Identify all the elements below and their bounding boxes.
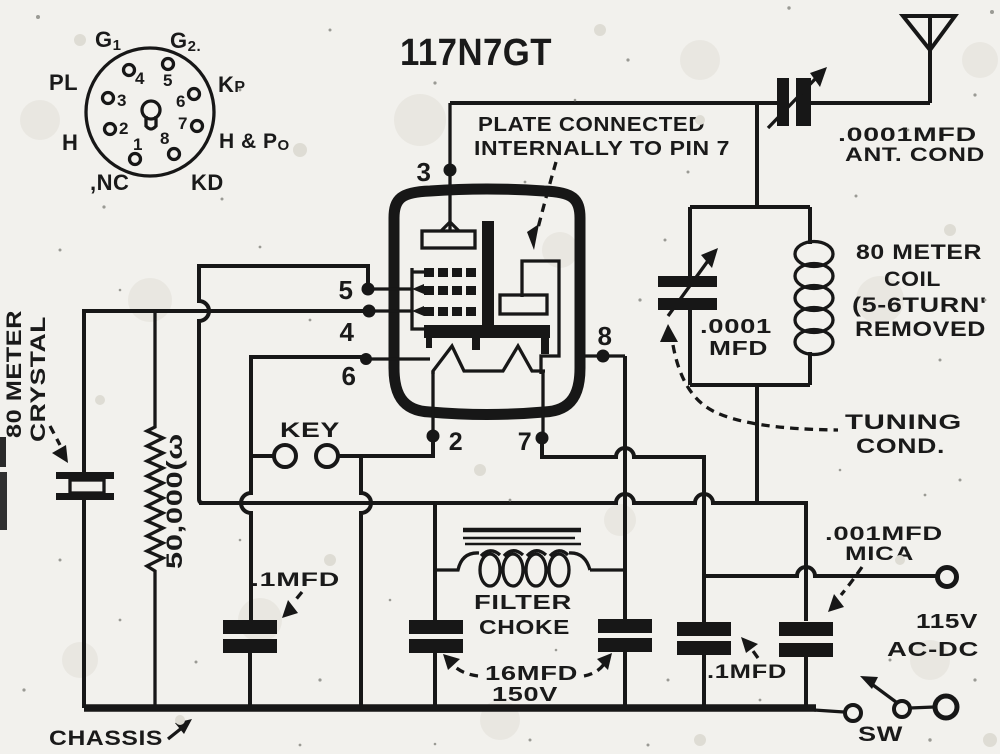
- wire: pin 5 screen feed loop: [199, 266, 368, 503]
- svg-text:3: 3: [117, 91, 127, 110]
- svg-text:5: 5: [163, 71, 173, 90]
- pin 8 stub: [584, 354, 625, 357]
- pin 5 stub into tube: [362, 287, 412, 290]
- socket pin 1: [130, 154, 141, 165]
- svg-text:80 METER: 80 METER: [856, 241, 982, 264]
- variable arrow through tuning capacitor: [668, 258, 710, 316]
- svg-text:ANT. COND: ANT. COND: [845, 145, 985, 166]
- chassis ground bus: [84, 704, 816, 712]
- svg-text:2: 2: [449, 428, 463, 456]
- wire: tank bottom feed to bus: [755, 385, 759, 505]
- wire: pin 8 rectifier output down to choke right: [623, 356, 627, 619]
- svg-text:3: 3: [417, 157, 432, 187]
- tank box top: [690, 205, 810, 209]
- svg-text:PLATE CONNECTED: PLATE CONNECTED: [478, 114, 705, 136]
- svg-text:COIL: COIL: [884, 268, 941, 291]
- capacitor C1 .1MFD cathode bypass: [223, 620, 277, 634]
- wire: key right to pin 2: [338, 436, 433, 456]
- wire: choke right to pin8 line: [590, 568, 625, 571]
- wire: pin 6 to key: [251, 357, 366, 456]
- svg-text:7: 7: [178, 114, 188, 133]
- pin 5 node dot: [362, 283, 375, 296]
- wire: plate top bus: [450, 101, 779, 105]
- socket pin 2: [105, 124, 116, 135]
- svg-text:KD: KD: [191, 170, 224, 195]
- pin 6 stub into tube: [362, 357, 430, 360]
- svg-text:6: 6: [342, 361, 357, 391]
- grid side bracket: [412, 268, 475, 329]
- svg-text:4: 4: [135, 69, 145, 88]
- pin 2 node dot: [427, 430, 440, 443]
- svg-text:7: 7: [518, 428, 532, 456]
- socket pin 3: [103, 93, 114, 104]
- filter choke L2 laminations: [463, 528, 581, 533]
- svg-text:6: 6: [176, 92, 186, 111]
- key KEY: [274, 445, 296, 467]
- wire: crystal to chassis: [82, 500, 86, 708]
- tube U1 envelope: [394, 189, 580, 415]
- socket key: [142, 101, 160, 119]
- svg-text:INTERNALLY TO PIN 7: INTERNALLY TO PIN 7: [474, 138, 730, 160]
- svg-text:5: 5: [339, 275, 354, 305]
- tube socket outline: [86, 48, 214, 176]
- svg-text:2: 2: [119, 119, 129, 138]
- svg-text:CHOKE: CHOKE: [479, 617, 570, 639]
- svg-text:1: 1: [133, 135, 143, 154]
- pin 2 lead: [431, 371, 434, 430]
- svg-text:REMOVED: REMOVED: [855, 318, 986, 341]
- dashed pointer to C2: [453, 665, 478, 676]
- diode plate structure (right): [522, 261, 559, 374]
- svg-text:.0001MFD: .0001MFD: [838, 125, 977, 146]
- svg-text:8: 8: [598, 321, 613, 351]
- wire: tank feed from plate bus: [755, 103, 759, 207]
- svg-text:CRYSTAL: CRYSTAL: [27, 316, 50, 442]
- tuning capacitor .0001 MFD plates: [658, 276, 717, 287]
- svg-text:(5-6TURN': (5-6TURN': [852, 294, 987, 317]
- socket pin 4: [124, 65, 135, 76]
- grid dashes row 3: [424, 307, 434, 316]
- svg-text:.001MFD: .001MFD: [825, 524, 943, 545]
- wire: pin 7 heater to 115V line (hop over pin8 wire): [542, 438, 704, 622]
- svg-text:KEY: KEY: [280, 419, 340, 442]
- dashed pointer to C1: [293, 592, 302, 603]
- grid dashes row 2: [424, 286, 434, 295]
- socket pin 6: [189, 89, 200, 100]
- pin 7 node dot: [536, 432, 549, 445]
- pin 3 lead: [448, 103, 451, 231]
- svg-text:50,000(ω: 50,000(ω: [162, 433, 187, 569]
- wire: B+ bus down to choke left / filter cap: [433, 503, 437, 620]
- arrow to chassis: [168, 727, 183, 739]
- tank box left (split by tuning cap): [688, 207, 692, 385]
- svg-text:.1MFD: .1MFD: [707, 662, 787, 683]
- socket pin 7: [192, 121, 203, 132]
- scan artifact left edge: [0, 437, 6, 467]
- variable arrow through ant capacitor: [768, 76, 818, 128]
- dashed pointer to C3: [584, 664, 604, 676]
- resistor R1 50,000 ohm grid leak: [147, 311, 163, 705]
- svg-text:16MFD: 16MFD: [485, 663, 578, 685]
- svg-text:H: H: [62, 130, 78, 155]
- svg-text:,NC: ,NC: [90, 170, 129, 195]
- socket pin 8: [169, 149, 180, 160]
- wire: chassis to switch: [814, 710, 844, 712]
- wire: grid line from crystal to pin 4: [84, 311, 369, 472]
- center support pillar: [482, 221, 494, 331]
- svg-text:COND.: COND.: [856, 435, 945, 458]
- dashed pointer to diode plate: [538, 162, 556, 228]
- filter choke winding: [435, 553, 479, 570]
- wire: key right down to chassis (hop over B+ bus): [361, 456, 371, 705]
- svg-text:4: 4: [340, 317, 355, 347]
- svg-text:80 METER: 80 METER: [3, 310, 26, 438]
- dashed pointer tuning cond: [673, 345, 838, 430]
- terminal 115V bottom: [935, 696, 957, 718]
- socket pin 5: [163, 59, 174, 70]
- grid lead wedges: [412, 284, 424, 294]
- switch SW: [845, 705, 861, 721]
- svg-text:TUNING: TUNING: [845, 411, 962, 434]
- tank box right (split by coil): [808, 207, 812, 385]
- plate (anode) box: [422, 231, 475, 248]
- pin 6 node dot: [360, 353, 372, 365]
- pin 3 node dot: [444, 164, 457, 177]
- svg-text:CHASSIS: CHASSIS: [49, 727, 163, 750]
- B+ bus wire (hops over pin8 and line verticals): [199, 494, 806, 621]
- wire: ant cap to antenna: [811, 101, 930, 105]
- grid dashes row 1: [424, 268, 434, 277]
- pin 4 stub into tube: [362, 309, 412, 312]
- pin 4 node dot: [363, 305, 376, 318]
- svg-text:115V: 115V: [916, 611, 978, 633]
- svg-text:117N7GT: 117N7GT: [400, 32, 552, 74]
- antenna coupling capacitor .0001MFD plates: [777, 78, 789, 126]
- diode inner box: [500, 295, 547, 314]
- svg-text:8: 8: [160, 129, 170, 148]
- dashed pointer to C5: [841, 567, 862, 595]
- svg-text:MFD: MFD: [709, 338, 768, 360]
- tank box bottom: [690, 383, 810, 387]
- svg-text:AC-DC: AC-DC: [887, 639, 979, 661]
- svg-text:SW: SW: [858, 723, 903, 746]
- dashed pointer to C4: [753, 651, 758, 658]
- svg-text:PL: PL: [49, 70, 78, 95]
- capacitor C4 .1MFD line bypass: [677, 622, 731, 636]
- pin 8 node dot: [597, 350, 610, 363]
- svg-text:.0001: .0001: [700, 316, 772, 338]
- wire: key left down to bypass cap (hop over B+ bus): [241, 456, 251, 620]
- antenna: [903, 16, 955, 50]
- svg-text:150V: 150V: [492, 684, 558, 706]
- svg-text:.1MFD: .1MFD: [251, 570, 340, 591]
- wire: 115V terminal line (hop over mica cap lead): [704, 567, 937, 576]
- 80 meter coil L1 loops: [795, 242, 833, 267]
- capacitor C5 .001MFD mica: [779, 622, 833, 636]
- crystal Y1 80 meter: [56, 472, 114, 479]
- cathode / heater filament: [433, 346, 545, 374]
- terminal 115V top: [938, 568, 957, 587]
- capacitor C2 16MFD 150V: [409, 620, 463, 634]
- pin 7 lead: [541, 371, 544, 432]
- svg-text:FILTER: FILTER: [474, 592, 572, 614]
- capacitor C3 16MFD 150V: [598, 619, 652, 633]
- dashed pointer to crystal: [50, 426, 60, 445]
